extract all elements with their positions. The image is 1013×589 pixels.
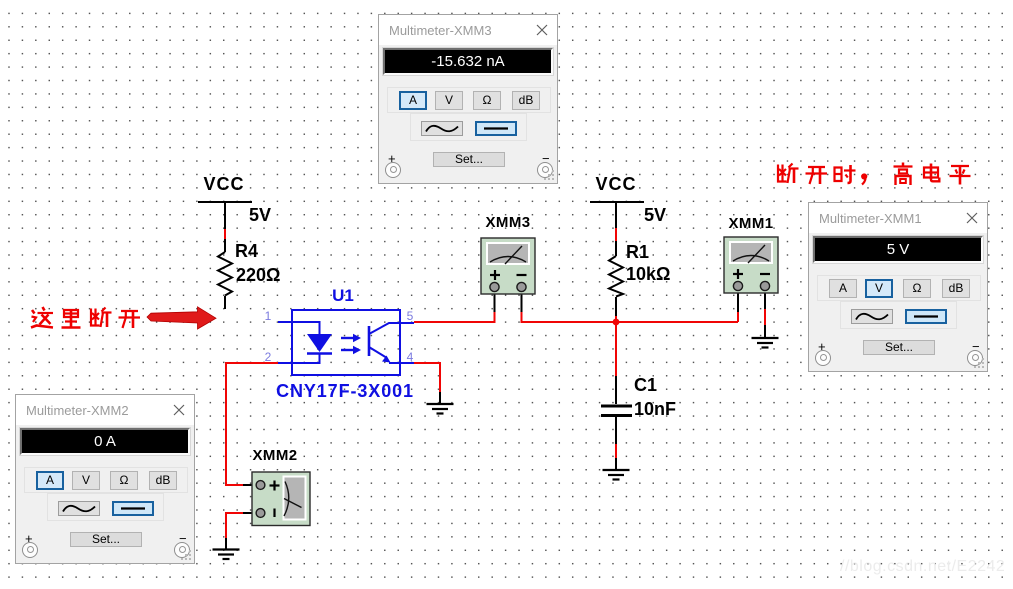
multimeter window XMM3 [378,14,558,184]
svg-text:VCC: VCC [595,174,636,194]
wire node to XMM1 plus terminal [737,291,739,322]
svg-text:5V: 5V [249,205,271,225]
meter icon XMM3 [481,214,535,294]
svg-text:C1: C1 [634,375,657,395]
resistor R4 [218,252,232,296]
svg-text:XMM2: XMM2 [253,447,298,464]
multimeter window XMM2 [15,394,195,564]
svg-text:1: 1 [265,309,272,323]
phototransistor base [368,326,371,356]
svg-text:10kΩ: 10kΩ [626,264,670,284]
wire junction to C1 [615,322,617,404]
svg-text:5: 5 [407,309,414,323]
power VCC (right, net VCC) [590,174,644,202]
optocoupler U1 CNY17F-3X001 [265,286,414,401]
svg-text:220Ω: 220Ω [236,265,280,285]
multimeter window XMM1 [808,202,988,372]
svg-text:CNY17F-3X001: CNY17F-3X001 [276,381,414,401]
LED cathode bar [307,352,332,354]
wire XMM1 minus terminal to ground [764,291,766,338]
wire R1 to junction [615,297,617,322]
ground (U1 pin4) [427,404,454,414]
light arrow 2 [341,346,361,354]
svg-text:5V: 5V [644,205,666,225]
capacitor C1 [601,406,632,416]
annotation text 断开时，高电平 [778,163,971,186]
svg-text:R4: R4 [235,241,258,261]
wire U1 pin2 to XMM2 plus terminal [226,363,278,485]
ground (C1) [603,470,630,480]
svg-text:VCC: VCC [203,174,244,194]
watermark [840,558,1005,576]
wire C1 to ground [615,417,617,470]
red annotation arrow [147,307,216,329]
LED triangle [307,334,332,352]
collector + pin 5 stub [369,323,414,334]
wire XMM2 minus terminal to ground [226,513,256,550]
svg-text:10nF: 10nF [634,399,676,419]
node junction dot [613,319,620,326]
wire U1 pin4 to ground [414,363,440,404]
svg-text:R1: R1 [626,242,649,262]
wire VCC to R4 (black with red net segment) [224,202,226,252]
wire U1 pin5 to XMM3 plus terminal [414,291,495,322]
meter icon XMM2 (rotated) [252,447,310,526]
svg-text:4: 4 [407,350,414,364]
wire XMM3 minus terminal to node [522,291,739,322]
svg-text:XMM1: XMM1 [729,215,774,232]
power VCC (left, net VCC) [198,174,252,202]
light arrow 1 [341,334,361,342]
pin 2 stub + cathode lead [278,354,320,364]
svg-text:2: 2 [265,350,272,364]
resistor R1 [609,256,623,297]
emitter with arrow + pin 4 stub [369,347,414,363]
pin 1 stub + anode lead [278,322,320,334]
svg-text:U1: U1 [332,286,354,305]
ground (XMM1) [752,338,779,348]
wire R4 open end (disconnected) [224,296,226,309]
annotation text 这里断开 [31,307,140,328]
ground (XMM2) [213,550,240,560]
wire VCC to R1 [615,202,617,256]
meter icon XMM1 [724,215,778,293]
svg-text:XMM3: XMM3 [486,214,531,231]
